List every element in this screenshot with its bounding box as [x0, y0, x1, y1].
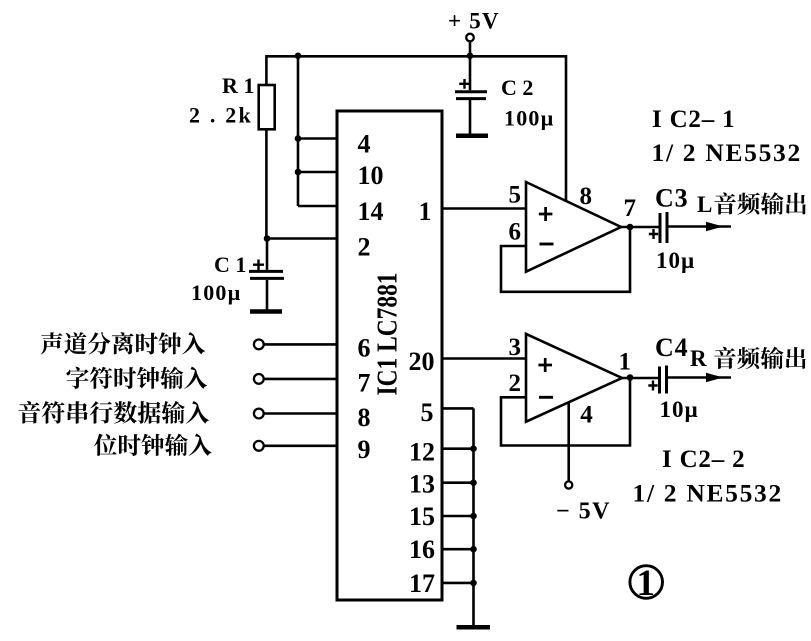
svg-text:4: 4 — [580, 402, 593, 429]
svg-text:2: 2 — [358, 233, 371, 262]
svg-text:9: 9 — [358, 435, 371, 464]
svg-text:R 1: R 1 — [222, 73, 254, 98]
svg-text:2: 2 — [509, 370, 522, 397]
svg-text:20: 20 — [409, 347, 435, 376]
svg-text:12: 12 — [409, 438, 435, 467]
svg-text:8: 8 — [358, 403, 371, 432]
svg-text:L: L — [697, 192, 712, 217]
svg-text:4: 4 — [358, 130, 371, 159]
svg-text:100µ: 100µ — [504, 106, 554, 131]
svg-text:1: 1 — [419, 197, 432, 226]
svg-text:I C2– 2: I C2– 2 — [662, 446, 745, 473]
svg-text:C 2: C 2 — [501, 75, 533, 100]
svg-text:7: 7 — [358, 369, 371, 398]
svg-text:2 . 2k: 2 . 2k — [189, 103, 253, 128]
svg-text:C3: C3 — [655, 184, 688, 213]
svg-text:C4: C4 — [655, 333, 688, 362]
svg-text:10µ: 10µ — [656, 248, 695, 273]
svg-text:5: 5 — [421, 398, 434, 427]
svg-text:13: 13 — [409, 470, 435, 499]
svg-text:C 1: C 1 — [214, 252, 246, 277]
svg-text:+ 5V: + 5V — [448, 9, 500, 34]
svg-text:6: 6 — [509, 218, 522, 245]
svg-text:1/ 2 NE5532: 1/ 2 NE5532 — [633, 479, 783, 508]
svg-text:8: 8 — [580, 183, 593, 210]
svg-text:100µ: 100µ — [191, 280, 241, 305]
svg-text:16: 16 — [409, 535, 435, 564]
svg-text:IC1 LC7881: IC1 LC7881 — [372, 273, 404, 396]
svg-text:3: 3 — [509, 334, 522, 361]
svg-text:14: 14 — [358, 197, 384, 226]
svg-text:10µ: 10µ — [660, 397, 699, 422]
svg-text:6: 6 — [358, 334, 371, 363]
svg-text:17: 17 — [409, 569, 435, 598]
svg-text:7: 7 — [624, 195, 637, 222]
svg-text:1/ 2 NE5532: 1/ 2 NE5532 — [652, 138, 802, 167]
svg-text:R: R — [690, 346, 707, 371]
svg-text:1: 1 — [637, 563, 656, 604]
svg-text:− 5V: − 5V — [556, 499, 611, 525]
svg-text:10: 10 — [358, 161, 384, 190]
svg-text:1: 1 — [619, 349, 632, 376]
svg-text:I C2– 1: I C2– 1 — [652, 106, 735, 133]
svg-text:15: 15 — [409, 502, 435, 531]
svg-text:5: 5 — [509, 181, 522, 208]
